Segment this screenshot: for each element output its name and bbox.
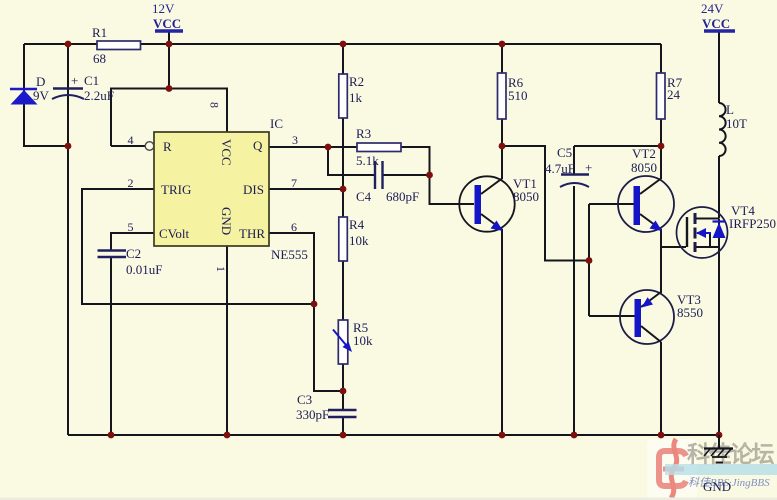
svg-text:68: 68	[93, 51, 106, 66]
svg-text:R1: R1	[92, 25, 107, 40]
svg-text:TRIG: TRIG	[161, 182, 191, 197]
wire VT1 collector riser	[501, 146, 503, 179]
node dot rail/C3	[340, 432, 347, 439]
inductor L 10T	[719, 102, 747, 156]
svg-text:NE555: NE555	[271, 247, 308, 262]
transistor VT1 (8050 NPN)	[459, 176, 539, 232]
svg-text:CVolt: CVolt	[159, 226, 189, 241]
watermark cyan band	[665, 464, 777, 475]
wire VT3 collector to ground rail	[660, 342, 662, 435]
wire VT2 base stub	[589, 203, 634, 205]
svg-text:8550: 8550	[677, 305, 703, 320]
svg-text:10T: 10T	[726, 116, 747, 131]
svg-text:2: 2	[128, 176, 134, 190]
wire R2-R4-R5 column	[342, 44, 344, 391]
wire VT4 source to ground rail	[718, 247, 720, 435]
svg-text:8050: 8050	[513, 189, 539, 204]
MOSFET VT4 (IRFP250)	[677, 203, 776, 258]
svg-text:24V: 24V	[701, 1, 724, 16]
wire R6 column	[501, 44, 503, 146]
pin 4 bubble	[145, 142, 154, 151]
node dot pin3 branch	[325, 144, 332, 151]
svg-text:D: D	[36, 74, 45, 89]
svg-text:IC: IC	[270, 116, 283, 131]
resistor R2	[339, 74, 364, 118]
wire R3 right corner down	[401, 147, 430, 175]
svg-text:GND: GND	[219, 207, 234, 235]
wire top 12V rail	[24, 43, 661, 45]
svg-text:R3: R3	[356, 126, 371, 141]
svg-text:+: +	[71, 73, 78, 88]
wire bottom ground rail	[68, 434, 719, 436]
svg-text:510: 510	[508, 88, 528, 103]
capacitor C5	[545, 145, 592, 187]
svg-text:8050: 8050	[631, 160, 657, 175]
node dot rail/pin1	[224, 432, 231, 439]
wire C1 column	[67, 44, 69, 435]
node dot rail/VT4s	[716, 432, 723, 439]
svg-text:科佳论坛: 科佳论坛	[687, 441, 775, 467]
wire VT4 gate stub	[661, 246, 686, 248]
svg-text:4: 4	[128, 133, 134, 147]
svg-text:R: R	[163, 139, 172, 154]
wire C3 bottom lead	[342, 417, 344, 435]
power 24V VCC	[701, 1, 735, 31]
node dot rail/VCC12	[166, 41, 173, 48]
capacitor C2	[98, 246, 163, 277]
node dot diode/C1	[65, 143, 72, 150]
svg-text:L: L	[726, 102, 734, 117]
svg-text:Q: Q	[253, 138, 263, 153]
wire pin2 TRIG loop to THR	[82, 189, 314, 304]
svg-text:4.7uF: 4.7uF	[545, 161, 575, 176]
IC NE555 box	[154, 116, 308, 262]
node dot rail/C1	[65, 41, 72, 48]
node dot rail/R6	[499, 41, 506, 48]
watermark red emblem	[659, 439, 686, 498]
wire C2 bottom lead	[110, 257, 112, 435]
svg-text:12V: 12V	[152, 1, 175, 16]
svg-text:5: 5	[128, 220, 134, 234]
node dot timing node	[340, 388, 347, 395]
transistor VT2 (8050 NPN)	[618, 146, 674, 232]
svg-text:C1: C1	[84, 73, 99, 88]
wire left diode branch	[24, 44, 68, 146]
resistor R6	[498, 73, 528, 119]
resistor R5 (adjustable)	[333, 320, 373, 364]
wire 24V stub to inductor	[718, 32, 720, 103]
wire C4 right to node	[383, 174, 430, 176]
wire C3 leads	[342, 391, 344, 410]
svg-text:330pF: 330pF	[296, 407, 329, 422]
wire pin5 CVolt stub	[111, 233, 154, 250]
svg-text:3: 3	[292, 133, 298, 147]
wire VT2 emitter to VT3 emitter	[660, 229, 662, 293]
watermark white halo	[647, 439, 697, 500]
svg-text:24: 24	[667, 87, 681, 102]
svg-text:R4: R4	[349, 217, 365, 232]
node dot R7/C5/VT2	[658, 143, 665, 150]
resistor R7	[657, 73, 683, 119]
svg-text:9V: 9V	[33, 88, 50, 103]
wire pin3 output row	[269, 146, 357, 148]
power 12V VCC	[152, 1, 183, 31]
wire inductor to VT4 drain	[718, 156, 720, 219]
svg-text:C4: C4	[356, 189, 372, 204]
svg-text:VCC: VCC	[153, 16, 181, 31]
svg-text:C3: C3	[297, 392, 312, 407]
node dot R6/VT1 collector	[499, 143, 506, 150]
wire R6 node to 545 corner	[502, 146, 589, 261]
svg-text:+: +	[585, 160, 592, 175]
svg-text:6: 6	[291, 220, 297, 234]
capacitor C1	[52, 73, 114, 103]
svg-text:THR: THR	[239, 226, 265, 241]
svg-text:GND: GND	[703, 479, 731, 494]
resistor R1	[92, 25, 141, 66]
wire pin3 branch down to C4 row	[328, 147, 374, 175]
svg-text:DIS: DIS	[243, 182, 264, 197]
wire VT3 base stub	[589, 315, 635, 317]
transistor VT3 (8550 PNP)	[620, 290, 703, 344]
svg-text:C2: C2	[126, 246, 141, 261]
ground symbol	[703, 435, 733, 494]
wire C5 bottom lead to ground	[573, 186, 575, 435]
wire node down to VT1 base	[430, 175, 475, 204]
node dot pin7/R2R4	[340, 186, 347, 193]
wire R7 column	[660, 44, 662, 146]
svg-text:0.01uF: 0.01uF	[126, 262, 162, 277]
wire pin7 DIS stub	[269, 188, 343, 190]
svg-text:10k: 10k	[353, 333, 373, 348]
svg-text:7: 7	[291, 176, 297, 190]
node dot R3/C4 out	[426, 172, 433, 179]
wire R7 node to VT2 collector	[660, 146, 662, 179]
node dot rail/VT3c	[658, 432, 665, 439]
svg-text:IRFP250: IRFP250	[729, 216, 776, 231]
svg-text:10k: 10k	[349, 233, 369, 248]
wire C5 top plate lead	[573, 146, 575, 174]
node dot TRIG/THR	[311, 301, 318, 308]
wire pin8/pin4 top loop	[111, 89, 227, 147]
svg-text:2.2uF: 2.2uF	[84, 88, 114, 103]
svg-text:C5: C5	[557, 145, 572, 160]
resistor R4	[339, 217, 369, 261]
wire VT2/VT3 base column	[588, 204, 590, 316]
svg-text:VCC: VCC	[702, 16, 730, 31]
wire pin1 to ground rail	[226, 246, 228, 435]
node dot rail/C2	[108, 432, 115, 439]
resistor R3	[356, 126, 401, 168]
wire C5 top lead to R7 node	[574, 145, 661, 147]
svg-text:1: 1	[214, 266, 228, 272]
svg-text:R2: R2	[349, 74, 364, 89]
node dot base column	[586, 257, 593, 264]
svg-text:8: 8	[208, 102, 222, 108]
svg-text:680pF: 680pF	[386, 189, 419, 204]
wire VT1 emitter fall	[501, 229, 503, 435]
node dot rail/R2	[340, 41, 347, 48]
bottom edge strip	[0, 498, 777, 500]
capacitor C4	[356, 161, 419, 204]
svg-text:VT2: VT2	[632, 146, 656, 161]
svg-text:1k: 1k	[349, 90, 363, 105]
wire pin4 stub	[111, 145, 145, 147]
wire pin6 THR down-loop to timing node	[269, 233, 343, 391]
capacitor C3	[296, 392, 357, 422]
diode D 9V	[10, 74, 50, 105]
node dot pin8 row	[166, 85, 173, 92]
node dot rail/VT1e	[499, 432, 506, 439]
node dot rail/C5	[571, 432, 578, 439]
wire VCC12 stub down to pin8 row	[168, 31, 170, 89]
svg-text:VCC: VCC	[219, 139, 234, 166]
